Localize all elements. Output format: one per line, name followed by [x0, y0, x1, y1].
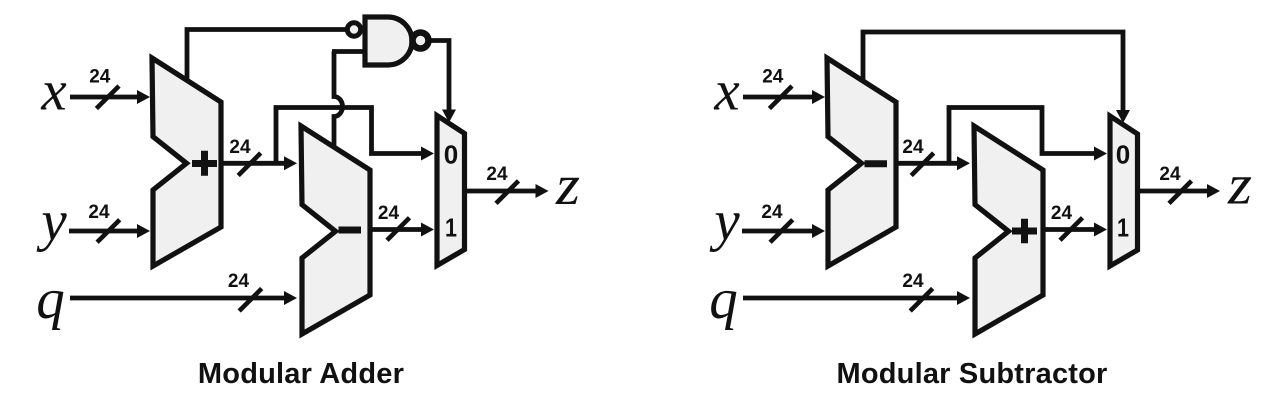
svg-text:24: 24: [228, 271, 250, 292]
svg-text:24: 24: [902, 271, 924, 292]
svg-text:1: 1: [445, 213, 457, 243]
svg-text:24: 24: [1159, 164, 1181, 185]
svg-text:z: z: [555, 154, 580, 217]
svg-text:24: 24: [761, 202, 783, 223]
svg-text:Modular Subtractor: Modular Subtractor: [836, 358, 1107, 390]
svg-text:24: 24: [1051, 203, 1073, 224]
svg-text:0: 0: [1116, 140, 1131, 170]
svg-text:24: 24: [378, 203, 400, 224]
svg-text:y: y: [709, 190, 740, 253]
svg-text:1: 1: [1117, 213, 1129, 243]
svg-text:24: 24: [902, 137, 924, 158]
svg-text:24: 24: [229, 137, 251, 158]
svg-text:24: 24: [89, 67, 111, 88]
svg-text:0: 0: [444, 140, 459, 170]
svg-text:24: 24: [486, 164, 508, 185]
svg-text:x: x: [713, 60, 739, 123]
svg-text:q: q: [709, 268, 738, 331]
svg-text:y: y: [36, 190, 67, 253]
svg-text:z: z: [1227, 154, 1252, 217]
svg-text:24: 24: [762, 67, 784, 88]
svg-text:q: q: [36, 268, 65, 331]
svg-text:Modular Adder: Modular Adder: [198, 358, 404, 390]
svg-text:x: x: [40, 60, 66, 123]
svg-text:24: 24: [88, 202, 110, 223]
